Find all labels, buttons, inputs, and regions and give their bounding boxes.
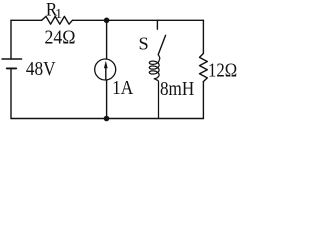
svg-text:1: 1 [55,6,62,21]
svg-text:48V: 48V [26,58,56,80]
svg-text:S: S [138,34,148,54]
svg-text:8mH: 8mH [160,78,194,100]
svg-text:12Ω: 12Ω [208,60,237,82]
svg-text:24Ω: 24Ω [45,26,76,48]
svg-text:1A: 1A [112,77,134,99]
